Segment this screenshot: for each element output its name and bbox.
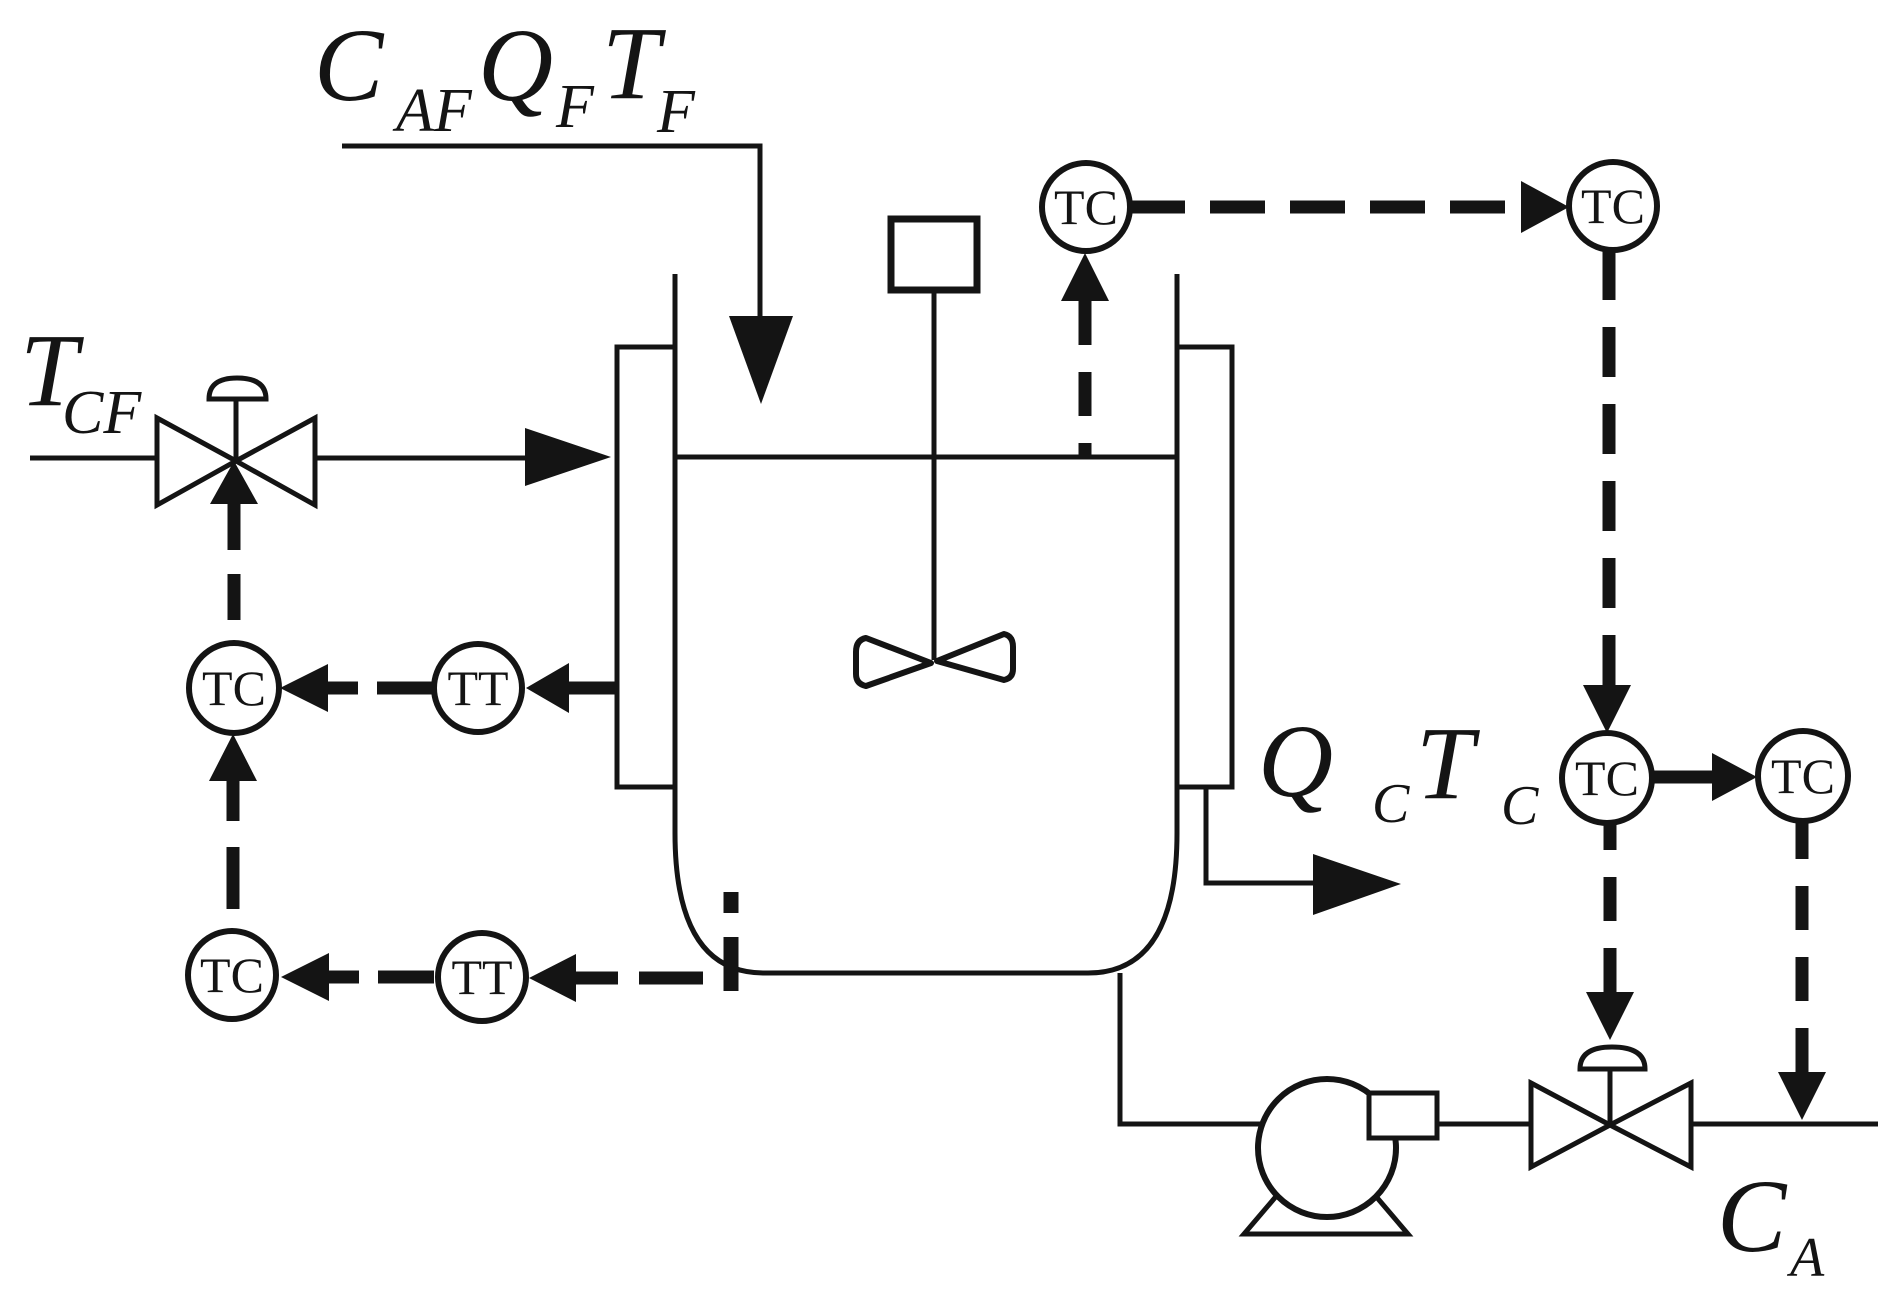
- arrow onto valve V2 actuator: [1586, 992, 1634, 1040]
- svg-text:C: C: [1501, 775, 1539, 837]
- svg-text:TT: TT: [447, 660, 508, 716]
- valve V2 actuator diaphragm: [1580, 1047, 1645, 1069]
- svg-text:Q: Q: [1258, 704, 1333, 819]
- svg-text:AF: AF: [392, 77, 473, 145]
- control line TC2 down to TC5 dashed: [1603, 250, 1616, 685]
- svg-text:Q: Q: [478, 8, 553, 123]
- control line TC4 up to TC3 dashed: [227, 781, 240, 931]
- instrument TT2: [438, 933, 526, 1021]
- instrument TC1: [1042, 163, 1130, 251]
- control line TT1 to TC3 dashed: [328, 682, 434, 695]
- svg-text:TC: TC: [1575, 750, 1639, 806]
- instrument TC4: [188, 931, 276, 1019]
- svg-text:TC: TC: [1581, 178, 1645, 234]
- arrow into TC6: [1712, 753, 1757, 801]
- jacket left: [617, 347, 675, 787]
- arrow into TT1: [526, 663, 569, 713]
- wire jacket coolant outlet: [1206, 787, 1315, 883]
- arrow into TC3: [280, 664, 328, 712]
- svg-text:TC: TC: [1054, 179, 1118, 235]
- instrument TC5: [1562, 733, 1652, 823]
- wire coolant feed pipe left segment: [30, 456, 160, 461]
- wire reactor outlet to pump: [1120, 973, 1262, 1124]
- control line reactor probe to TT2 dash-dot: [576, 972, 703, 985]
- svg-text:TC: TC: [200, 947, 264, 1003]
- wire coolant pipe valve to jacket: [312, 456, 527, 461]
- flow arrow QC TC outlet: [1313, 854, 1401, 915]
- control line level sensor to TC1 dashed: [1079, 301, 1092, 456]
- control line TC3 up to valve V1 dashed: [228, 504, 241, 643]
- instrument TC3: [189, 643, 279, 733]
- control line TC5 down to valve V2 dashed: [1604, 823, 1617, 992]
- svg-text:T: T: [1416, 706, 1480, 821]
- wire pump to valve V2: [1437, 1122, 1533, 1127]
- feed arrow into reactor: [729, 316, 793, 404]
- flow arrow into jacket: [525, 428, 611, 486]
- agitator shaft: [932, 290, 937, 660]
- pump casing: [1258, 1079, 1396, 1217]
- control line TC6 down to product line dashed: [1796, 821, 1809, 1072]
- jacket right: [1177, 347, 1232, 787]
- agitator motor box: [891, 219, 977, 290]
- svg-text:F: F: [656, 78, 696, 146]
- arrow onto product line: [1778, 1072, 1826, 1120]
- label CA product: [1717, 1159, 1825, 1289]
- svg-text:A: A: [1786, 1227, 1825, 1289]
- control line TC1 to TC2 dashed: [1130, 201, 1521, 214]
- liquid level line: [675, 455, 1177, 460]
- svg-text:TT: TT: [451, 949, 512, 1005]
- arrow into TC1: [1061, 253, 1109, 301]
- pump outlet nozzle: [1369, 1093, 1437, 1138]
- arrow into TC2: [1521, 181, 1569, 233]
- label CAF QF TF feed stream: [314, 6, 696, 146]
- arrow into TT2: [529, 954, 576, 1002]
- sensor stub jacket to TT1: [569, 682, 615, 695]
- reactor vessel wall: [675, 274, 1177, 973]
- control valve V2 body: [1531, 1083, 1691, 1167]
- svg-text:C: C: [314, 8, 385, 123]
- control link TC5 to TC6 solid: [1652, 771, 1714, 784]
- instrument TT1: [434, 644, 522, 732]
- valve V1 actuator diaphragm: [209, 378, 266, 399]
- pump base: [1244, 1180, 1408, 1234]
- impeller: [856, 638, 931, 686]
- label TCF coolant feed: [20, 313, 142, 447]
- label QC TC: [1258, 704, 1539, 837]
- instrument TC6: [1758, 731, 1848, 821]
- svg-text:TC: TC: [1771, 748, 1835, 804]
- svg-text:C: C: [1717, 1159, 1788, 1274]
- svg-text:CF: CF: [62, 379, 142, 447]
- svg-text:TC: TC: [202, 660, 266, 716]
- wire feed line underline and drop into reactor: [342, 146, 760, 318]
- arrow into valve V1: [210, 461, 258, 504]
- control line TT2 to TC4 dashed: [329, 971, 438, 984]
- arrow into TC5 from above: [1583, 685, 1631, 733]
- svg-text:F: F: [555, 73, 595, 141]
- valve V2 actuator stem: [1608, 1069, 1613, 1125]
- arrow into TC4: [281, 953, 329, 1001]
- arrow into TC3 from below: [209, 734, 257, 781]
- control valve V1 body: [157, 418, 315, 505]
- instrument TC2: [1569, 162, 1657, 250]
- svg-text:C: C: [1372, 773, 1410, 835]
- wire product line to edge: [1689, 1122, 1878, 1127]
- valve V1 actuator stem: [234, 399, 239, 461]
